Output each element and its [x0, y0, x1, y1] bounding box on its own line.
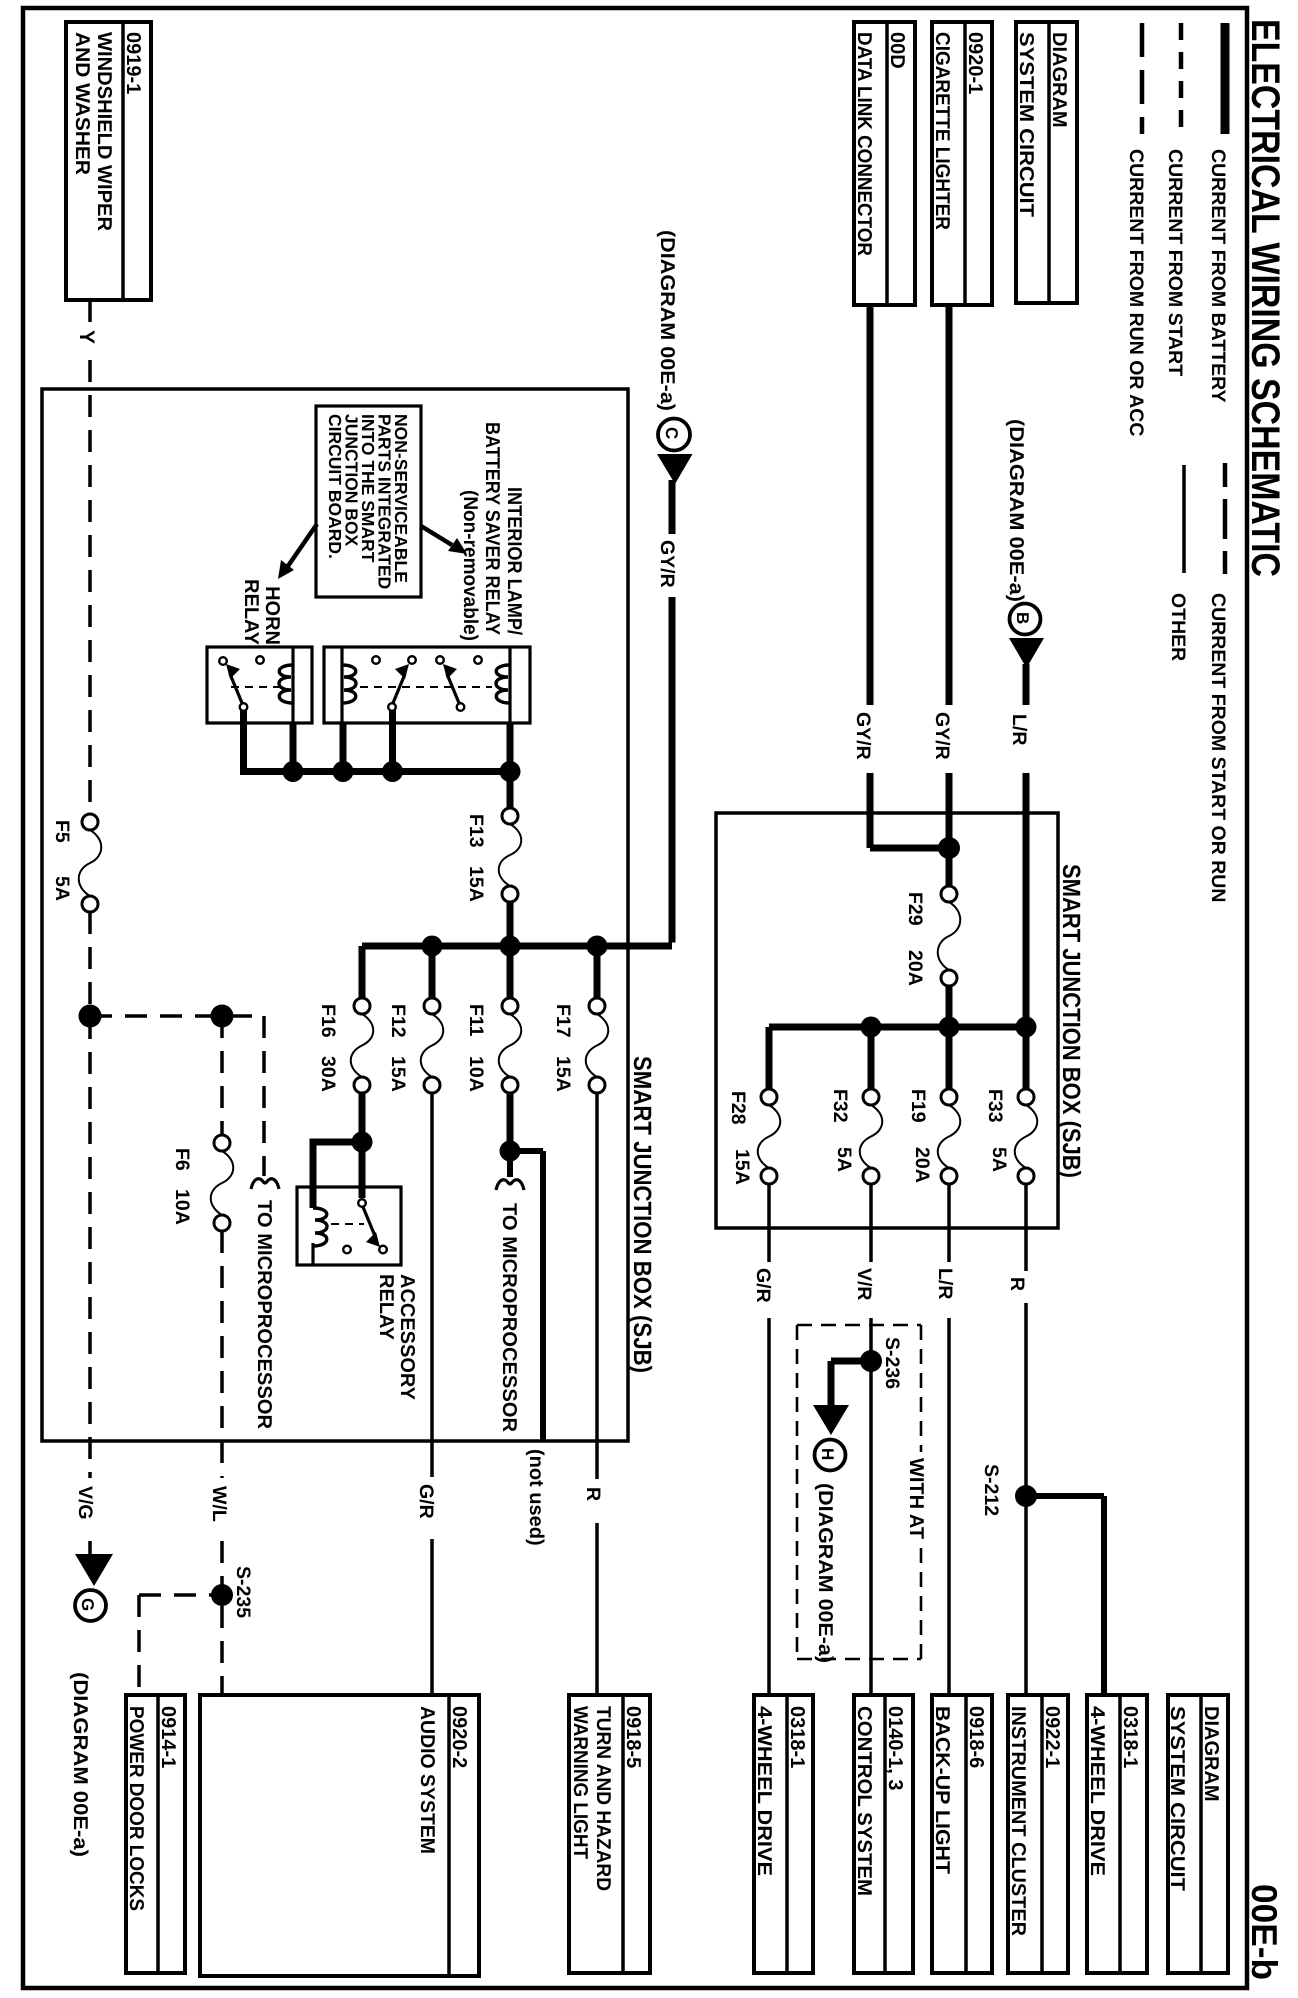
fuse F12 15A: [387, 998, 443, 1093]
title ELECTRICAL WIRING SCHEMATIC: [1243, 19, 1287, 577]
node junctions on main bus: [422, 936, 608, 957]
svg-text:B: B: [1013, 612, 1032, 624]
svg-text:V/R: V/R: [853, 1268, 875, 1301]
svg-text:Y: Y: [75, 330, 98, 344]
node junction on V/G wire: [79, 1005, 102, 1028]
legend sample: current from battery (thick solid): [1221, 23, 1230, 134]
wire GY/R from cigarette lighter: [946, 305, 953, 887]
fuse F6 10A: [171, 1135, 233, 1231]
svg-text:SMART JUNCTION BOX (SJB): SMART JUNCTION BOX (SJB): [1057, 864, 1085, 1178]
label (not used): [525, 1449, 547, 1546]
connector box 00D DATA LINK CONNECTOR: [853, 22, 915, 305]
wire GY/R from diagram C: [669, 480, 676, 943]
caption HORN RELAY: [240, 579, 283, 646]
svg-text:(DIAGRAM 00E-a): (DIAGRAM 00E-a): [1005, 419, 1027, 602]
node splice S-236: [860, 1337, 903, 1389]
dashed branch wire to W/L column: [90, 1014, 264, 1018]
connector box 0918-6 BACK-UP LIGHT: [931, 1695, 992, 1973]
connector box 0914-1 POWER DOOR LOCKS: [125, 1695, 185, 1973]
wire F29 to right bus: [946, 986, 953, 1027]
connector box 0318-1 4-WHEEL DRIVE (right): [1086, 1695, 1147, 1973]
svg-text:F29: F29: [904, 892, 926, 926]
svg-text:DIAGRAM: DIAGRAM: [1200, 1706, 1222, 1802]
svg-text:G/R: G/R: [415, 1484, 437, 1519]
svg-text:(DIAGRAM 00E-a): (DIAGRAM 00E-a): [814, 1483, 836, 1663]
label (DIAGRAM 00E-a) for C: [656, 230, 678, 411]
relay K1 pins: [219, 656, 264, 711]
legend label OTHER: [1167, 593, 1189, 661]
svg-text:C: C: [662, 427, 681, 439]
svg-text:H: H: [818, 1448, 837, 1460]
svg-text:15A: 15A: [387, 1056, 409, 1092]
svg-text:F19: F19: [907, 1089, 929, 1123]
svg-text:AUDIO SYSTEM: AUDIO SYSTEM: [416, 1706, 438, 1854]
caption INTERIOR LAMP / BATTERY SAVER RELAY (Non-removable): [459, 422, 525, 641]
relay K2 mechanical link (dashed): [360, 686, 492, 688]
wire label W/L: [208, 1486, 230, 1522]
svg-text:AND WASHER: AND WASHER: [71, 32, 93, 176]
label SMART JUNCTION BOX (SJB) right: [1057, 864, 1085, 1178]
svg-text:CURRENT FROM BATTERY: CURRENT FROM BATTERY: [1207, 149, 1229, 402]
wire F11 to microprocessor: [507, 1093, 514, 1177]
svg-text:20A: 20A: [904, 950, 926, 986]
svg-text:R: R: [582, 1487, 604, 1501]
connector box 0920-1 CIGARETTE LIGHTER: [931, 22, 992, 305]
legend sample: current from start (dashed): [1179, 23, 1184, 134]
wire Y from windshield wiper box (dashed): [88, 300, 92, 814]
wire label G/R (right): [752, 1268, 774, 1303]
svg-text:CURRENT FROM START OR RUN: CURRENT FROM START OR RUN: [1207, 593, 1229, 902]
wire main bus (left SJB): [362, 943, 672, 950]
svg-text:10A: 10A: [171, 1189, 193, 1225]
wire V/G vertical (dashed): [88, 912, 92, 1556]
note arrow to horn relay: [278, 524, 317, 579]
fuse F19 20A: [907, 1089, 960, 1184]
svg-text:F5: F5: [51, 820, 73, 843]
wire G/R from F12: [430, 1093, 434, 1695]
svg-text:POWER DOOR LOCKS: POWER DOOR LOCKS: [125, 1706, 147, 1911]
connector box DIAGRAM SYSTEM CIRCUIT (top): [1015, 22, 1077, 303]
svg-text:0914-1: 0914-1: [157, 1706, 179, 1768]
svg-text:SMART JUNCTION BOX (SJB): SMART JUNCTION BOX (SJB): [628, 1056, 656, 1373]
fuse F17 15A: [552, 998, 608, 1093]
svg-text:BACK-UP LIGHT: BACK-UP LIGHT: [931, 1706, 953, 1874]
svg-text:DIAGRAM: DIAGRAM: [1048, 32, 1070, 128]
wire G/R from F28: [767, 1184, 771, 1695]
note box NON-SERVICEABLE PARTS: [316, 406, 421, 597]
svg-text:INSTRUMENT CLUSTER: INSTRUMENT CLUSTER: [1007, 1706, 1029, 1937]
svg-text:S-235: S-235: [232, 1566, 254, 1618]
svg-text:00E-b: 00E-b: [1244, 1884, 1285, 1980]
svg-text:15A: 15A: [465, 866, 487, 902]
wire label V/G: [74, 1486, 96, 1520]
svg-text:0140-1, 3: 0140-1, 3: [884, 1706, 906, 1791]
wire from F13 to main bus: [507, 902, 514, 946]
relay K2 switch arm 2: [443, 664, 459, 703]
relay K1 switch arm: [226, 664, 242, 703]
svg-text:RELAY: RELAY: [375, 1274, 397, 1341]
connector circle B: [1010, 604, 1041, 635]
caption ACCESSORY RELAY: [375, 1274, 418, 1401]
wire branch S-236 to H: [831, 1361, 871, 1407]
svg-text:W/L: W/L: [208, 1486, 230, 1522]
legend sample: other (thin solid): [1182, 465, 1186, 573]
svg-text:0918-6: 0918-6: [965, 1706, 987, 1768]
connector circle C: [658, 419, 690, 451]
svg-text:ELECTRICAL WIRING SCHEMATIC: ELECTRICAL WIRING SCHEMATIC: [1243, 19, 1287, 577]
fuse F28 15A: [727, 1089, 780, 1185]
relay K3 coil: [313, 1208, 327, 1265]
node splice S-212: [980, 1464, 1037, 1516]
arrow from B: [1009, 638, 1044, 668]
wire F16 to accessory relay: [310, 1093, 363, 1208]
fuse F33 5A: [984, 1089, 1037, 1184]
relay K3 pins: [343, 1199, 387, 1253]
node junction GY/R merge: [938, 837, 960, 859]
svg-text:L/R: L/R: [1008, 714, 1030, 745]
legend label CURRENT FROM START: [1164, 149, 1186, 376]
svg-text:S-236: S-236: [881, 1337, 903, 1389]
connector box 0919-1 WINDSHIELD WIPER AND WASHER: [66, 22, 151, 300]
relay K1 coil: [279, 647, 293, 723]
label (DIAGRAM 00E-a) for H: [814, 1483, 836, 1663]
svg-text:GY/R: GY/R: [852, 712, 874, 760]
fuse F13 15A: [465, 808, 521, 902]
svg-text:(Non-removable): (Non-removable): [459, 490, 481, 641]
relay K2 battery saver relay box: [324, 647, 530, 723]
relay K2 coil 2: [496, 647, 510, 723]
arrow to G: [75, 1554, 113, 1586]
wire V/R from F32: [869, 1184, 873, 1695]
svg-text:0318-1: 0318-1: [1119, 1706, 1141, 1768]
wire R from F33: [1024, 1184, 1028, 1695]
svg-text:OTHER: OTHER: [1167, 593, 1189, 661]
svg-text:00D: 00D: [886, 32, 908, 69]
wire label GY/R (cigarette lighter): [931, 712, 953, 760]
brace and label TO MICROPROCESSOR (right): [496, 1180, 524, 1433]
dashed option box WITH AT: [797, 1325, 921, 1659]
fuse F16 30A: [317, 998, 373, 1093]
connector box 0140-1,3 CONTROL SYSTEM: [853, 1695, 913, 1973]
node junction W/L top: [211, 1005, 234, 1028]
svg-text:TURN AND HAZARD: TURN AND HAZARD: [592, 1706, 614, 1891]
svg-text:CURRENT FROM RUN OR ACC: CURRENT FROM RUN OR ACC: [1125, 149, 1147, 436]
svg-text:F33: F33: [984, 1089, 1006, 1123]
svg-text:CURRENT FROM START: CURRENT FROM START: [1164, 149, 1186, 376]
dashed branch from S-235 to power door locks: [139, 1595, 213, 1695]
smart junction box (right) SJB outline: [716, 813, 1058, 1228]
legend label CURRENT FROM RUN OR ACC: [1125, 149, 1147, 436]
svg-text:WITH AT: WITH AT: [905, 1458, 927, 1539]
arrow to H: [813, 1405, 849, 1435]
svg-text:0922-1: 0922-1: [1041, 1706, 1063, 1768]
wire W/L (dashed) with fuse F6: [220, 1016, 224, 1135]
svg-text:CONTROL SYSTEM: CONTROL SYSTEM: [853, 1706, 875, 1896]
svg-text:F12: F12: [387, 1004, 409, 1038]
fuse F32 5A: [829, 1089, 882, 1184]
wire R from F17: [595, 1093, 599, 1695]
wire stubs right bus to fuses: [769, 1027, 1026, 1089]
svg-text:15A: 15A: [731, 1149, 753, 1185]
wire stubs from relays to bus: [244, 710, 511, 772]
svg-text:R: R: [1006, 1277, 1028, 1291]
wire from bus to fuse F13: [507, 772, 514, 810]
connector box 0920-2 AUDIO SYSTEM: [200, 1695, 479, 1976]
wire L/R from F19: [947, 1184, 951, 1695]
svg-text:GY/R: GY/R: [656, 540, 678, 588]
relay K2 pins: [372, 656, 482, 711]
svg-text:4-WHEEL DRIVE: 4-WHEEL DRIVE: [753, 1706, 775, 1876]
node splice S-235: [211, 1566, 254, 1618]
wire label L/R (bottom): [934, 1268, 956, 1299]
svg-text:L/R: L/R: [934, 1268, 956, 1299]
svg-text:F11: F11: [465, 1004, 487, 1037]
svg-text:GY/R: GY/R: [931, 712, 953, 760]
relay K3 mechanical link (dashed): [331, 1223, 364, 1225]
svg-text:F32: F32: [829, 1089, 851, 1123]
svg-text:0918-5: 0918-5: [622, 1706, 644, 1768]
wire label GY/R (C branch): [656, 540, 678, 588]
legend sample: current from run or acc (long dash): [1140, 23, 1145, 134]
connector box DIAGRAM SYSTEM CIRCUIT (bottom): [1166, 1695, 1228, 1973]
svg-text:F17: F17: [552, 1004, 574, 1038]
svg-text:5A: 5A: [833, 1147, 855, 1172]
legend label CURRENT FROM BATTERY: [1207, 149, 1229, 402]
svg-text:BATTERY SAVER RELAY: BATTERY SAVER RELAY: [481, 422, 503, 636]
svg-text:F16: F16: [317, 1004, 339, 1038]
relay K1 mechanical link (dashed): [231, 686, 281, 688]
wire W/L into audio system (dashed): [220, 1606, 224, 1695]
relay K3 accessory relay box: [297, 1187, 401, 1265]
wire label GY/R (data link): [852, 712, 874, 760]
node junctions on relay bus: [283, 761, 521, 782]
svg-text:SYSTEM CIRCUIT: SYSTEM CIRCUIT: [1166, 1706, 1188, 1891]
node junctions on right bus: [861, 1017, 1037, 1038]
svg-text:0920-2: 0920-2: [448, 1706, 470, 1768]
connector box 0918-5 TURN AND HAZARD WARNING LIGHT: [569, 1695, 650, 1973]
smart junction box (left) SJB outline: [42, 389, 628, 1441]
svg-text:WINDSHIELD WIPER: WINDSHIELD WIPER: [93, 32, 115, 232]
svg-text:S-212: S-212: [980, 1464, 1002, 1516]
wire L/R from diagram B: [1023, 664, 1030, 1027]
svg-text:5A: 5A: [51, 876, 73, 901]
fuse F11 10A: [465, 998, 521, 1093]
svg-text:F13: F13: [465, 814, 487, 848]
svg-text:ACCESSORY: ACCESSORY: [396, 1274, 418, 1401]
connector circle G: [75, 1590, 106, 1621]
page number 00E-b: [1244, 1884, 1285, 1980]
legend sample: current from start or run (long-short dash): [1223, 463, 1228, 574]
svg-text:F6: F6: [171, 1148, 193, 1171]
wire label L/R (top): [1008, 714, 1030, 745]
relay K2 switch arm 1: [393, 664, 409, 703]
label WITH AT: [905, 1458, 927, 1539]
svg-text:5A: 5A: [988, 1147, 1010, 1172]
node junction at F16 output: [352, 1132, 373, 1153]
svg-text:15A: 15A: [552, 1056, 574, 1092]
svg-text:0919-1: 0919-1: [122, 32, 144, 94]
fuse F5 5A: [51, 814, 101, 912]
svg-text:4-WHEEL DRIVE: 4-WHEEL DRIVE: [1086, 1706, 1108, 1876]
svg-text:(DIAGRAM 00E-a): (DIAGRAM 00E-a): [69, 1672, 91, 1857]
svg-text:TO MICROPROCESSOR: TO MICROPROCESSOR: [498, 1203, 520, 1433]
svg-text:INTERIOR LAMP/: INTERIOR LAMP/: [503, 487, 525, 635]
svg-text:20A: 20A: [911, 1147, 933, 1183]
svg-text:V/G: V/G: [74, 1486, 96, 1520]
connector box 0318-1 4-WHEEL DRIVE (left): [753, 1695, 813, 1973]
wire label Y: [75, 330, 98, 344]
wire GY/R from data link connector: [870, 305, 949, 848]
dashed branch corner down to microprocessor: [262, 1016, 266, 1176]
svg-text:RELAY: RELAY: [240, 579, 262, 646]
svg-text:SYSTEM CIRCUIT: SYSTEM CIRCUIT: [1015, 32, 1037, 217]
wire W/L continues (dashed): [220, 1231, 224, 1586]
wire label V/R: [853, 1268, 875, 1301]
legend label CURRENT FROM START OR RUN: [1207, 593, 1229, 902]
note arrow to battery saver relay: [421, 526, 467, 554]
svg-text:F28: F28: [727, 1091, 749, 1125]
wire branch S-212 to 4-wheel drive: [1026, 1496, 1104, 1695]
connector box 0922-1 INSTRUMENT CLUSTER: [1007, 1695, 1068, 1973]
wire label R (right): [1006, 1277, 1028, 1291]
svg-text:(DIAGRAM 00E-a): (DIAGRAM 00E-a): [656, 230, 678, 411]
wire bus relay feed: [240, 768, 510, 775]
svg-text:CIGARETTE LIGHTER: CIGARETTE LIGHTER: [931, 32, 953, 231]
wire main bus (right SJB): [769, 1024, 1026, 1031]
relay K3 switch arm: [363, 1207, 380, 1247]
wire label G/R (left): [415, 1484, 437, 1519]
svg-text:CIRCUIT BOARD.: CIRCUIT BOARD.: [325, 414, 345, 559]
wire stubs bus to fuses F16 F12 F11 F17: [362, 946, 597, 999]
svg-text:0920-1: 0920-1: [964, 32, 986, 94]
svg-text:30A: 30A: [317, 1056, 339, 1092]
label SMART JUNCTION BOX (SJB) left: [628, 1056, 656, 1373]
svg-text:HORN: HORN: [261, 586, 283, 645]
wire not used branch: [510, 1151, 543, 1441]
svg-text:(not used): (not used): [525, 1449, 547, 1546]
label (DIAGRAM 00E-a) bottom left: [69, 1672, 91, 1857]
brace and label TO MICROPROCESSOR (left): [251, 1179, 279, 1430]
wire label R (left): [582, 1487, 604, 1501]
svg-text:G: G: [78, 1598, 97, 1611]
connector circle H: [815, 1440, 846, 1471]
label (DIAGRAM 00E-a) for B: [1005, 419, 1027, 602]
node junction at F11 output: [500, 1141, 521, 1162]
relay K1 horn relay box: [207, 647, 312, 723]
svg-text:TO MICROPROCESSOR: TO MICROPROCESSOR: [253, 1200, 275, 1430]
svg-text:10A: 10A: [465, 1056, 487, 1092]
relay K2 coil 1: [342, 647, 356, 723]
svg-text:0318-1: 0318-1: [786, 1706, 808, 1768]
arrow from C: [657, 454, 693, 484]
svg-text:DATA LINK CONNECTOR: DATA LINK CONNECTOR: [853, 32, 875, 257]
fuse F29 20A: [904, 886, 960, 986]
svg-text:WARNING LIGHT: WARNING LIGHT: [569, 1706, 591, 1859]
svg-text:G/R: G/R: [752, 1268, 774, 1303]
